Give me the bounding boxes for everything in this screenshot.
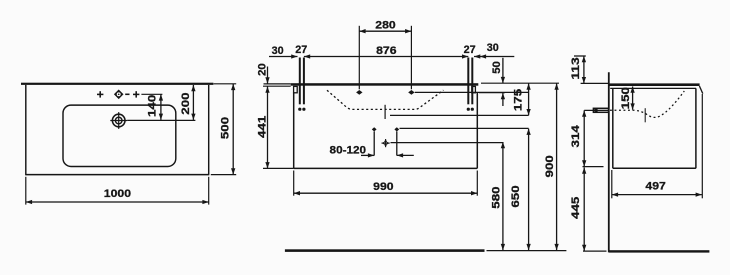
svg-text:876: 876 [376,45,396,57]
svg-text:650: 650 [510,185,522,207]
svg-text:20: 20 [256,63,268,76]
svg-text:497: 497 [645,180,665,192]
svg-text:200: 200 [180,92,192,114]
svg-text:27: 27 [464,44,476,56]
svg-text:500: 500 [220,117,232,139]
svg-text:990: 990 [373,181,393,193]
svg-text:580: 580 [490,186,502,208]
svg-text:445: 445 [570,197,582,219]
svg-text:441: 441 [256,116,268,138]
svg-text:1000: 1000 [104,188,131,200]
svg-text:140: 140 [146,95,158,117]
svg-text:50: 50 [491,61,503,74]
svg-text:175: 175 [513,89,525,111]
svg-text:314: 314 [570,124,582,147]
svg-text:150: 150 [620,87,632,109]
svg-text:27: 27 [295,44,307,56]
svg-text:113: 113 [570,57,582,79]
svg-text:30: 30 [272,45,284,57]
svg-text:280: 280 [375,20,395,32]
svg-text:900: 900 [544,155,556,177]
svg-text:80-120: 80-120 [330,144,367,156]
svg-text:30: 30 [487,42,499,54]
